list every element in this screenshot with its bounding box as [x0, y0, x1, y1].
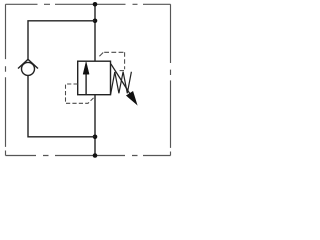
wire lower branch from check valve: [28, 76, 95, 137]
vent line upper right vertical (dashed): [124, 52, 126, 69]
pilot line lower left (dashed): [66, 84, 95, 103]
node junction dot lower branch: [93, 135, 98, 140]
check valve seat: [18, 59, 38, 68]
adjustment arrow shaft: [111, 64, 130, 94]
node junction dot upper branch: [93, 19, 98, 24]
adjustment arrow head: [127, 92, 137, 105]
wire main line upper: [94, 4, 96, 61]
node junction dot top border: [93, 2, 98, 7]
flow arrow shaft: [85, 73, 87, 95]
wire main line lower: [94, 95, 96, 156]
wire upper branch to check valve: [28, 21, 95, 60]
enclosure boundary top: [6, 3, 171, 5]
flow arrow head: [83, 62, 89, 74]
enclosure boundary left: [5, 4, 7, 155]
check valve ball: [22, 62, 35, 75]
vent line stub dash: [120, 70, 124, 72]
relief valve body: [78, 61, 111, 94]
spring: [111, 72, 132, 95]
vent line upper right diagonal dash: [99, 53, 103, 57]
enclosure boundary right: [170, 4, 172, 155]
node junction dot bottom border: [93, 153, 98, 158]
vent line upper right horizontal (dashed): [104, 51, 124, 53]
enclosure boundary bottom: [6, 155, 171, 157]
